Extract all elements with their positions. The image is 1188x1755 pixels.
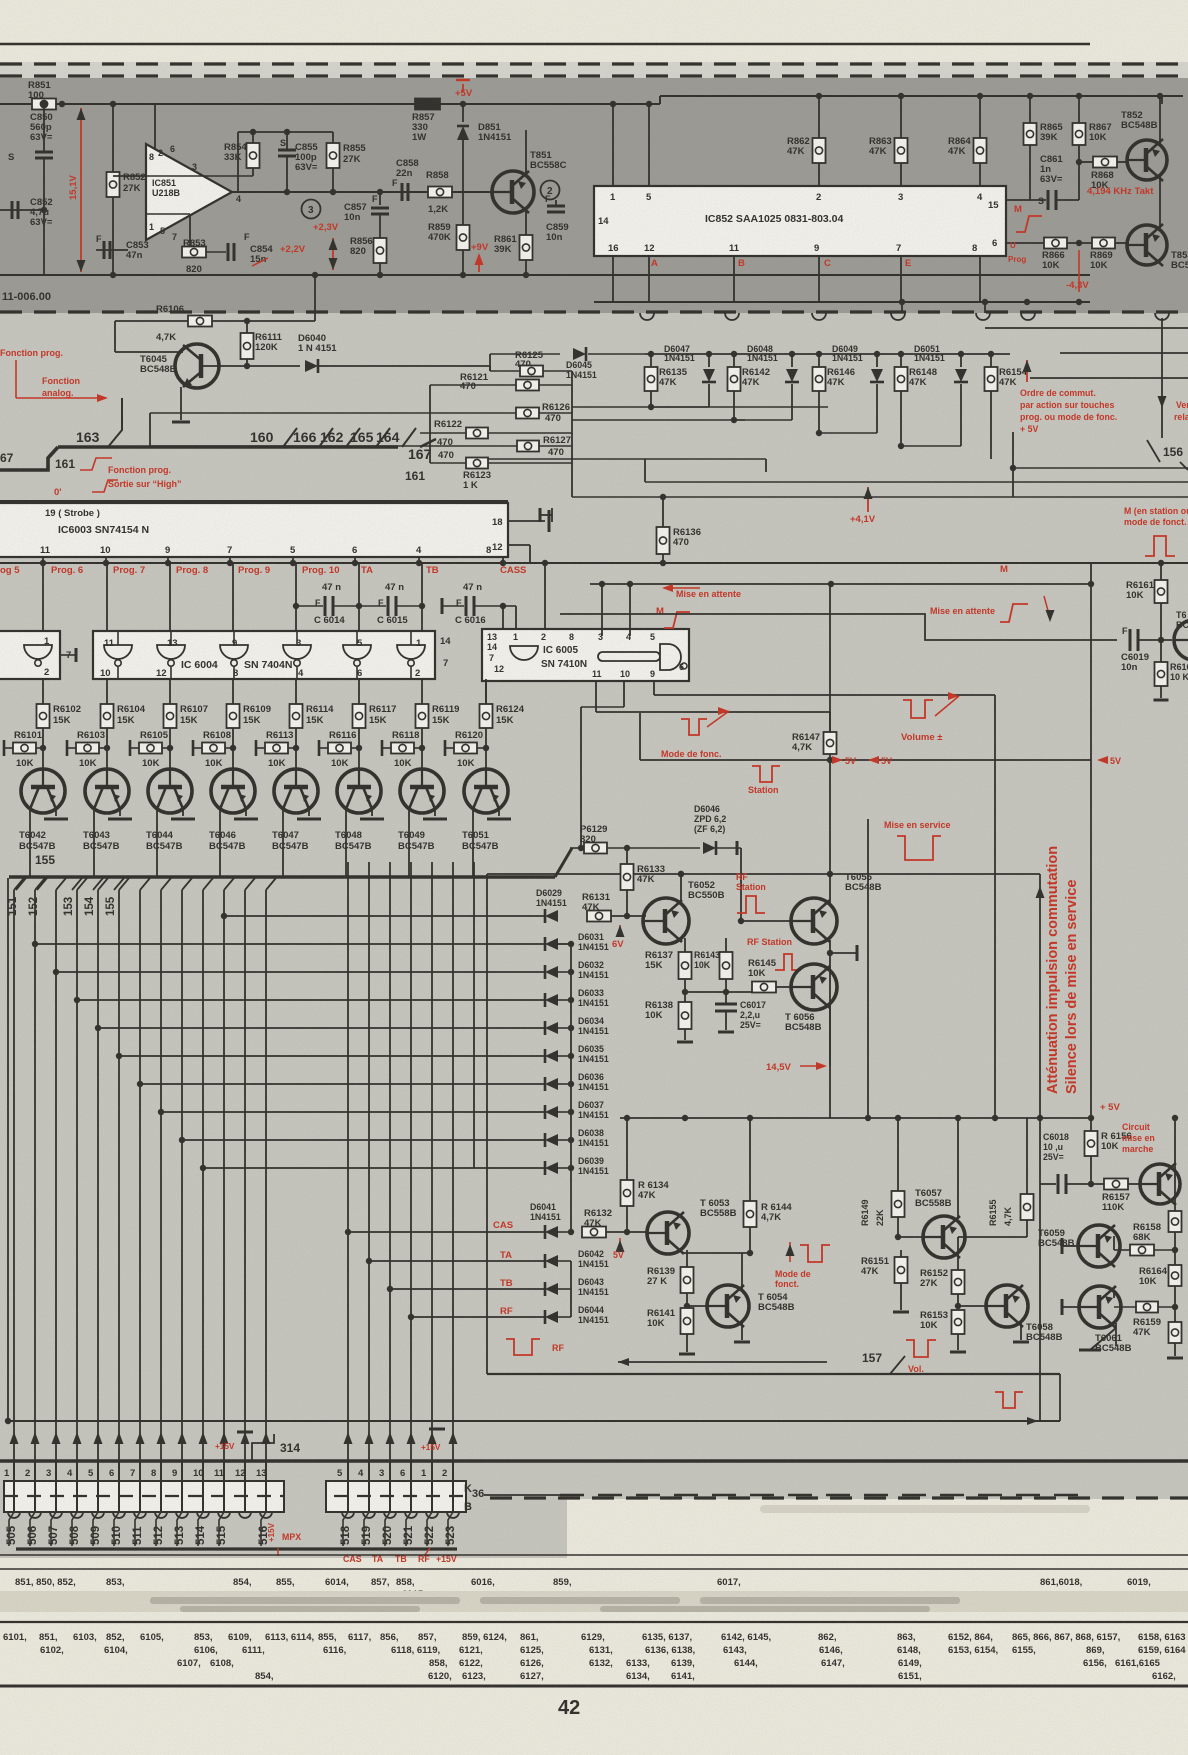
wire pin6 row xyxy=(1006,242,1044,244)
bus slant labels 151-155 xyxy=(16,878,26,890)
node 2 circle xyxy=(541,181,560,200)
top rail left xyxy=(0,103,660,105)
schematic bottom border xyxy=(0,1459,1188,1462)
wires into IC6005 top xyxy=(502,606,504,629)
footer shade band xyxy=(0,1591,1188,1612)
red pulse right low xyxy=(995,1392,1023,1408)
marker 156 xyxy=(1147,440,1160,462)
dashed module border top outer xyxy=(0,62,1188,65)
resistor R859 xyxy=(457,225,470,250)
wires fan to right edge xyxy=(572,406,828,408)
ghost text right of dashed xyxy=(760,1505,1090,1513)
resistor R6151 xyxy=(900,1250,902,1257)
wires rail to IC6004 inputs xyxy=(106,563,108,631)
resistor R6126 xyxy=(150,412,516,414)
wires IC852 top pins xyxy=(612,104,614,186)
marker 157 xyxy=(890,1356,905,1374)
IC IC6003 SN74154N xyxy=(0,503,508,557)
resistor R6123 xyxy=(430,462,466,464)
red 6V xyxy=(619,925,621,937)
rail mise en attente lower with jog xyxy=(560,614,1117,640)
boundary pass-through arcs xyxy=(640,313,654,320)
capacitor C855 xyxy=(286,132,288,150)
transistor T6061 xyxy=(1079,1286,1121,1328)
resistor R856 xyxy=(374,238,387,263)
resistor R6136 xyxy=(662,497,664,527)
feedback rail xyxy=(238,131,333,133)
bus branch 163 xyxy=(108,398,122,447)
resistor R6102 xyxy=(37,704,50,728)
IC left stub box xyxy=(0,631,60,679)
resistor R852 xyxy=(112,104,114,172)
wires IC6005 outputs down xyxy=(595,681,597,712)
resistor R6109 xyxy=(227,704,240,728)
resistor R6111 xyxy=(246,321,248,333)
slant label 516 xyxy=(261,1512,266,1546)
bus branch 165 xyxy=(376,428,390,447)
resistor R6107 xyxy=(164,704,177,728)
footer rule thin1 xyxy=(0,1554,1188,1556)
footer rule mid xyxy=(0,1621,1188,1623)
rail mise en attente upper xyxy=(590,583,1094,585)
wire T6045 emitter ground xyxy=(180,387,182,420)
wires IC6004 outputs down xyxy=(42,679,44,704)
mesh horizontal rows to diode matrix xyxy=(224,915,545,917)
wire inverting input xyxy=(113,175,146,177)
slant labels 505-515 xyxy=(9,1512,14,1546)
red station annotation xyxy=(752,766,780,782)
transistor T6060 xyxy=(1140,1164,1180,1204)
resistor R6156 xyxy=(1085,1131,1098,1156)
wire top band into T6045 section xyxy=(314,275,316,321)
IC IC6005 SN7410N xyxy=(482,629,689,681)
wire op-amp bias lower xyxy=(146,213,190,215)
resistor R6114 xyxy=(290,704,303,728)
+15V tbar pin12 xyxy=(237,1431,253,1434)
plug strip K36 left xyxy=(4,1481,284,1512)
pass-through arcs group1 xyxy=(8,1512,20,1518)
diode cathode common vertical xyxy=(570,944,572,1232)
wire left edge mid xyxy=(0,209,44,211)
diode D6035 xyxy=(545,1050,558,1062)
voltage 15,1V xyxy=(80,108,82,272)
bus thick line xyxy=(9,875,555,879)
bottom rail right section xyxy=(594,301,1090,303)
resistor R6144 xyxy=(749,1118,751,1201)
resistor R6138 xyxy=(679,1002,692,1029)
resistor R863 xyxy=(900,96,902,138)
resistor R6135 xyxy=(650,354,652,367)
transistor T851 xyxy=(492,171,534,213)
top rail right xyxy=(660,95,1183,97)
resistor R6148 xyxy=(900,354,902,367)
dashed module border bottom of dark band xyxy=(0,310,1188,313)
plus5v rail bottom xyxy=(620,1117,1093,1119)
resistor R854 xyxy=(247,143,260,168)
bus branch 167 xyxy=(420,439,436,447)
box right vertical xyxy=(1059,1374,1061,1421)
vertical line right1 xyxy=(1090,563,1092,1118)
transistor T6046 xyxy=(211,769,255,813)
wire mise en service top xyxy=(487,873,1040,875)
transistor T6056 xyxy=(791,964,837,1010)
diode D6041 xyxy=(545,1226,558,1238)
wire T6052 collector up xyxy=(680,874,682,905)
wire T6055 collector xyxy=(829,760,831,903)
top page rule xyxy=(0,43,1090,46)
red mode de fonct lower xyxy=(789,1242,791,1262)
dashed module border top inner xyxy=(0,74,1188,77)
resistor R6127 xyxy=(150,445,517,447)
diode D6039 xyxy=(545,1162,558,1174)
bus branch 164 xyxy=(402,428,416,447)
diode D6034 xyxy=(545,1022,558,1034)
diode D6038 xyxy=(545,1134,558,1146)
vertical +5V line xyxy=(1012,432,1014,497)
bus branch 160 xyxy=(283,428,297,447)
transistor T6058 xyxy=(958,1305,986,1307)
thick collector line xyxy=(16,1547,457,1550)
resistor R855 xyxy=(332,132,334,143)
wire mode de fonct路 xyxy=(596,711,830,713)
diode D6044 xyxy=(545,1311,558,1323)
resistor R6153 xyxy=(952,1310,965,1334)
red volume annotation xyxy=(903,700,933,718)
wire -5V row xyxy=(640,759,1091,761)
+15V tbar right xyxy=(429,1428,445,1431)
connector area gray right xyxy=(567,1463,1188,1499)
dark gray module band xyxy=(0,78,1188,313)
left vertical bus wires xyxy=(13,890,15,1463)
top light strip xyxy=(0,62,1188,78)
wire to right edge y378 xyxy=(1030,377,1188,379)
pass-through arcs group2 xyxy=(342,1512,354,1518)
capacitor C853 xyxy=(96,249,128,251)
resistor R862 xyxy=(818,96,820,138)
resistor R6141 xyxy=(681,1308,694,1334)
transistor T853 xyxy=(1127,225,1167,265)
bottom rail of top band xyxy=(0,274,1090,276)
resistor R6124 xyxy=(480,704,493,728)
resistor R864 xyxy=(979,96,981,138)
transistor T6044 xyxy=(148,769,192,813)
ground stub left xyxy=(540,514,552,516)
left long wires to cluster xyxy=(149,413,151,446)
diode D6037 xyxy=(545,1106,558,1118)
diode D6042 xyxy=(545,1255,558,1267)
wire T6056 emitter down xyxy=(829,1003,831,1066)
diode D6043 xyxy=(545,1283,558,1295)
resistor R865 xyxy=(1029,96,1031,123)
resistor R6146 xyxy=(818,354,820,367)
diode rows right stubs xyxy=(558,943,571,945)
mesh rows CAS TA TB RF xyxy=(348,1231,545,1233)
transistor T6048 xyxy=(337,769,381,813)
box bottom edge xyxy=(487,1373,1060,1375)
extra vertical to diode box xyxy=(473,862,475,1168)
red RF pulse bottom xyxy=(506,1339,540,1355)
diode D6032 xyxy=(545,966,558,978)
transistor T6054 xyxy=(687,1305,708,1307)
connector area gray left xyxy=(0,1463,567,1558)
wire emitter row xyxy=(685,991,752,993)
light gray main schematic band xyxy=(0,313,1188,1463)
diode group rail xyxy=(645,353,1010,355)
vertical line to 156 xyxy=(1161,318,1163,438)
wires through plug strips xyxy=(13,1481,15,1511)
dashed border bottom right xyxy=(490,1496,1188,1499)
capacitor C854 xyxy=(206,251,226,253)
capacitor C858 xyxy=(380,191,400,193)
wire mid node to C857 xyxy=(379,192,381,205)
resistor R853 xyxy=(182,247,206,258)
wire op-amp output xyxy=(232,191,490,193)
rail under IC6003 xyxy=(0,562,1188,564)
resistor R861 xyxy=(520,235,533,260)
red mode de fonct annotation xyxy=(681,719,707,735)
resistor R6143 xyxy=(725,938,727,952)
right edge resistor column xyxy=(1174,1118,1176,1211)
capacitor C6017 xyxy=(725,992,727,1004)
red +4,1V xyxy=(867,487,869,512)
transistor T6042 xyxy=(21,769,65,813)
bus branch 162 xyxy=(346,428,360,447)
resistor R6104 xyxy=(101,704,114,728)
resistor R6134 xyxy=(626,1118,628,1180)
resistor R6157 xyxy=(1104,1179,1128,1190)
resistor R867 xyxy=(1078,96,1080,123)
wire to right edge y353 xyxy=(1060,352,1188,354)
resistor R6137 xyxy=(684,938,686,952)
diode D6036 xyxy=(545,1078,558,1090)
resistor R6162 xyxy=(1160,640,1162,662)
wire to right edge y328 xyxy=(985,327,1188,329)
connector wires group1 xyxy=(13,1461,15,1512)
capacitor C859 xyxy=(555,200,557,206)
transistor T6043 xyxy=(85,769,129,813)
vertical wires mid xyxy=(867,819,869,1118)
wire base row xyxy=(201,365,300,367)
resistor R6142 xyxy=(733,354,735,367)
IC IC6004 SN7404N xyxy=(93,631,435,679)
resistor R857 xyxy=(415,99,440,110)
transistor T6053 xyxy=(647,1212,689,1254)
bus branch 166 xyxy=(319,428,333,447)
vertical 1040 down xyxy=(1039,1118,1041,1421)
wires IC6003 pins to rail xyxy=(42,557,44,563)
resistor R6159 xyxy=(1136,1302,1158,1313)
resistor R866 xyxy=(1044,238,1067,249)
IC IC852 SAA1025 xyxy=(594,186,1006,256)
resistor R6161 xyxy=(1160,563,1162,580)
plug strip K36 right xyxy=(326,1481,466,1512)
slant labels 518-523 xyxy=(343,1512,348,1546)
transistor T6051 xyxy=(464,769,508,813)
op-amp IC851 xyxy=(154,104,156,150)
transistor T6047 xyxy=(274,769,318,813)
red 5V small xyxy=(619,1238,621,1248)
transistor T6049 xyxy=(400,769,444,813)
IC6004 gates xyxy=(117,631,119,645)
strobe wire xyxy=(0,500,508,502)
transistor T partial right edge xyxy=(1174,620,1188,660)
resistor R851 xyxy=(32,99,56,110)
box left edge long vertical xyxy=(486,874,488,1374)
connector wires group2 xyxy=(347,1461,349,1512)
resistor R6152 xyxy=(957,1253,959,1270)
red Vol pulse xyxy=(906,1340,936,1357)
wire from R851 xyxy=(43,104,45,152)
diode D851 xyxy=(462,104,464,122)
pin18 hook and bar xyxy=(508,520,545,522)
red +5V arrow commut xyxy=(1026,360,1028,382)
resistor R6154 xyxy=(990,354,992,367)
diode D6031 xyxy=(545,938,558,950)
vertical right edge from band xyxy=(1161,96,1163,104)
T-bar right of T6055 xyxy=(827,950,833,956)
program bus thick line xyxy=(0,447,58,470)
wires IC852 bottom pins down xyxy=(612,256,614,302)
transistor T6052 xyxy=(643,898,689,944)
marker 314 xyxy=(252,1434,274,1461)
resistor R6117 xyxy=(353,704,366,728)
resistor R869 xyxy=(1092,238,1115,249)
footer rule thin2 xyxy=(0,1568,1188,1570)
resistor R868 xyxy=(1079,161,1093,163)
resistor R6119 xyxy=(416,704,429,728)
diode D6033 xyxy=(545,994,558,1006)
footer rule bottom xyxy=(0,1685,1188,1688)
node 3 circle xyxy=(302,200,321,219)
right vertical bus wires group2 xyxy=(347,862,349,1463)
wire long return bottom xyxy=(8,1420,1060,1422)
diode D6029 xyxy=(545,910,558,922)
resistor R858 xyxy=(428,187,452,198)
resistor R6139 xyxy=(686,1250,688,1267)
resistor R6133 xyxy=(626,848,628,864)
